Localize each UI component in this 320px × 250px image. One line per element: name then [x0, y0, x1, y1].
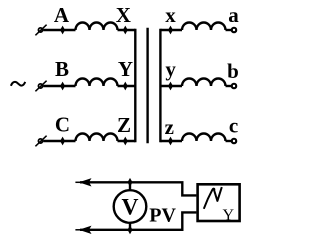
primary winding A-X — [76, 23, 118, 31]
voltmeter PV circle — [114, 190, 147, 223]
svg-text:Z: Z — [117, 113, 131, 137]
AC source tilde — [11, 82, 25, 86]
svg-text:C: C — [55, 112, 70, 136]
secondary winding y-b — [182, 79, 226, 87]
wire terminal C to node C — [43, 140, 75, 142]
terminal a — [232, 28, 237, 33]
voltmeter top lead — [129, 182, 131, 190]
node Z junction dot — [123, 138, 127, 145]
node Y junction dot — [123, 83, 127, 90]
bottom measurement wire — [80, 212, 196, 229]
node x junction dot — [169, 27, 173, 34]
svg-text:B: B — [55, 57, 69, 81]
node B junction dot — [61, 83, 65, 90]
node y junction dot — [169, 83, 173, 90]
node C junction dot — [61, 138, 65, 145]
terminal c — [232, 139, 237, 144]
svg-text:Y: Y — [223, 207, 235, 224]
secondary winding x-a — [182, 23, 226, 31]
terminal A (input clamp) — [35, 25, 46, 36]
svg-text:x: x — [165, 3, 176, 27]
svg-text:c: c — [229, 114, 238, 138]
terminal C (input clamp) — [35, 136, 46, 147]
top measurement wire — [80, 182, 196, 195]
wire X to left bus — [118, 29, 136, 31]
svg-text:b: b — [227, 59, 239, 83]
wire coil to terminal b — [226, 85, 232, 87]
node X junction dot — [123, 27, 127, 34]
wire bus to node z — [160, 140, 182, 142]
terminal B (input clamp) — [35, 81, 46, 92]
right star bus x-y-z — [159, 29, 161, 142]
wire bus to node x — [160, 29, 182, 31]
wire coil to terminal a — [226, 29, 232, 31]
svg-text:X: X — [116, 3, 131, 27]
voltmeter bottom lead — [129, 222, 131, 229]
node A junction dot — [61, 27, 65, 34]
waveform glyph — [204, 187, 222, 209]
svg-text:V: V — [122, 195, 139, 221]
svg-text:y: y — [165, 57, 176, 81]
junction dot bottom wire / voltmeter — [128, 226, 132, 233]
wire Z to left bus — [118, 140, 136, 142]
bottom wire arrow head — [80, 227, 90, 234]
oscilloscope box — [198, 184, 240, 221]
svg-text:PV: PV — [149, 205, 176, 227]
left star bus X-Y-Z — [134, 29, 136, 142]
svg-text:A: A — [54, 3, 70, 27]
svg-text:Y: Y — [118, 57, 133, 81]
wire bus to node y — [160, 85, 182, 87]
wire Y to left bus — [118, 85, 136, 87]
wire terminal B to node B — [43, 85, 75, 87]
node z junction dot — [169, 138, 173, 145]
transformer core — [146, 28, 148, 143]
primary winding B-Y — [76, 79, 118, 87]
terminal b — [232, 84, 237, 89]
svg-text:a: a — [228, 3, 239, 27]
top wire arrow head — [80, 179, 90, 186]
secondary winding z-c — [182, 134, 226, 141]
wire terminal A to node A — [43, 29, 75, 31]
primary winding C-Z — [76, 134, 118, 141]
junction dot top wire / voltmeter — [128, 179, 132, 186]
svg-text:z: z — [165, 115, 174, 139]
wire coil to terminal c — [226, 140, 232, 142]
